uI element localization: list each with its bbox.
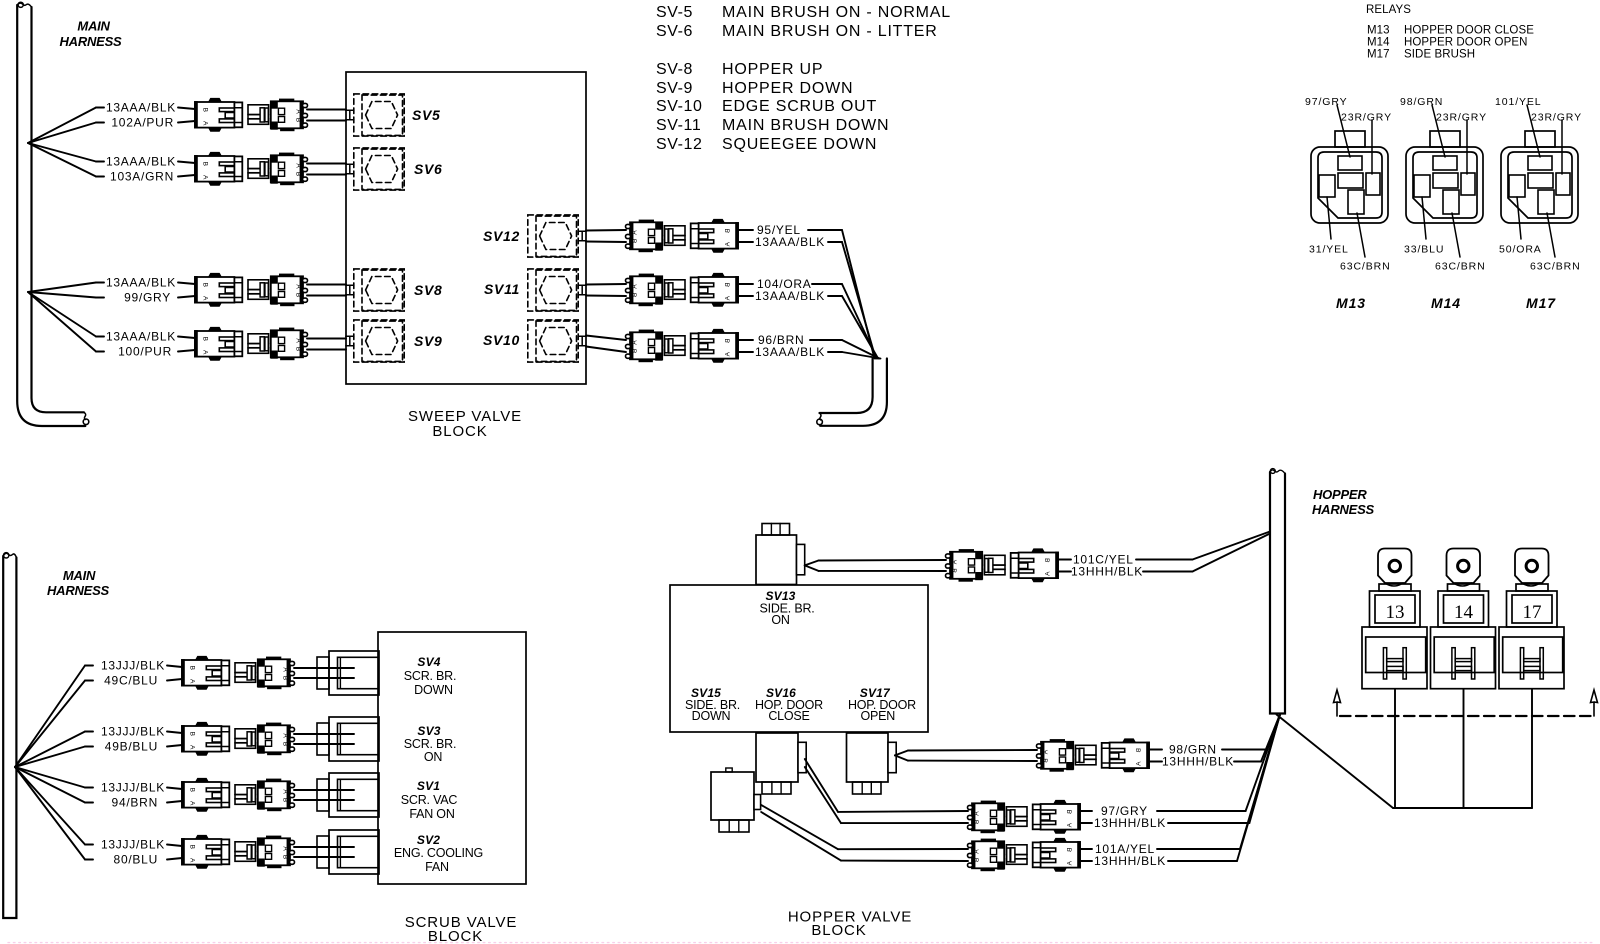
svg-text:98/GRN: 98/GRN (1400, 96, 1443, 108)
wires to hopper harness fan (1157, 848, 1240, 850)
svg-text:B: B (282, 742, 289, 746)
wires to hopper harness (1136, 559, 1193, 561)
svg-text:B: B (201, 283, 208, 287)
svg-text:M17: M17 (1367, 49, 1390, 61)
svg-text:A: A (295, 163, 302, 168)
svg-text:A: A (188, 858, 195, 863)
connector pair at y=115 (194, 98, 307, 131)
svg-text:A: A (1067, 861, 1074, 866)
svg-text:SV5: SV5 (412, 107, 441, 123)
svg-text:SV12: SV12 (483, 228, 520, 244)
relay bundle horizontal wire (1393, 807, 1532, 809)
wires to connector (167, 845, 182, 847)
relay socket M14 (1406, 105, 1483, 257)
svg-text:99/GRY: 99/GRY (124, 291, 171, 305)
svg-text:A: A (282, 733, 289, 738)
svg-text:A: A (1136, 762, 1143, 767)
svg-text:A: A (201, 121, 208, 126)
svg-text:A: A (188, 745, 195, 750)
small bump on SV15 (726, 768, 732, 772)
wires to connector (167, 666, 182, 668)
svg-text:13HHH/BLK: 13HHH/BLK (1094, 816, 1166, 830)
wires from SV15 to connector 101A/YEL (761, 805, 838, 849)
svg-text:23R/GRY: 23R/GRY (1341, 112, 1392, 124)
svg-text:HARNESS: HARNESS (1312, 502, 1375, 517)
svg-text:13HHH/BLK: 13HHH/BLK (1094, 854, 1166, 868)
wire stubs to labels (1058, 559, 1071, 561)
svg-text:ON: ON (771, 613, 790, 627)
connector pair 101C/YEL (946, 549, 1059, 582)
svg-text:B: B (725, 339, 732, 343)
wires from labels to sweep harness stub (808, 229, 842, 231)
svg-text:BLOCK: BLOCK (432, 423, 487, 440)
svg-text:RELAYS: RELAYS (1366, 4, 1411, 16)
svg-text:MAIN BRUSH ON - LITTER: MAIN BRUSH ON - LITTER (722, 23, 938, 40)
svg-text:MAIN BRUSH ON - NORMAL: MAIN BRUSH ON - NORMAL (722, 4, 951, 21)
svg-text:13AAA/BLK: 13AAA/BLK (106, 101, 176, 115)
svg-text:SV4: SV4 (417, 655, 440, 669)
solenoid SV16 (756, 733, 798, 782)
solenoid SV13 (756, 535, 797, 585)
wires sweep block to connector (586, 229, 626, 232)
svg-text:103A/GRN: 103A/GRN (110, 170, 174, 184)
svg-text:A: A (725, 242, 732, 247)
svg-text:SV6: SV6 (414, 161, 443, 177)
relay wires down (1394, 689, 1396, 808)
svg-text:A: A (632, 340, 639, 345)
svg-text:CLOSE: CLOSE (768, 709, 809, 723)
svg-text:SV3: SV3 (417, 724, 440, 738)
wire fan from main harness at (15,767) (15, 666, 85, 768)
wires connector to solenoid (294, 667, 354, 669)
svg-text:B: B (974, 858, 981, 862)
svg-text:23R/GRY: 23R/GRY (1436, 112, 1487, 124)
svg-text:B: B (282, 798, 289, 802)
svg-text:B: B (188, 845, 195, 849)
svg-text:SV-9: SV-9 (656, 80, 693, 97)
wires connector to sweep valve block (307, 163, 346, 165)
wires to connector (167, 732, 182, 734)
connector pair at y=795 (181, 778, 294, 811)
svg-text:SV-10: SV-10 (656, 98, 703, 115)
svg-text:13AAA/BLK: 13AAA/BLK (106, 155, 176, 169)
svg-text:M13: M13 (1367, 25, 1390, 37)
svg-text:B: B (1067, 810, 1074, 814)
connector pair 101A/YEL (968, 838, 1081, 871)
valve SV10 (528, 320, 586, 362)
svg-text:13HHH/BLK: 13HHH/BLK (1071, 565, 1143, 579)
connector pair at y=739 (181, 722, 294, 755)
wires from SV16 to connector 97/GRY (805, 759, 838, 812)
svg-text:B: B (632, 349, 639, 353)
wires connector to sweep valve block (307, 109, 346, 111)
svg-text:B: B (201, 108, 208, 112)
svg-text:B: B (632, 239, 639, 243)
wire stubs to labels (738, 339, 753, 341)
wire to connector (178, 108, 195, 110)
svg-text:SV-6: SV-6 (656, 23, 693, 40)
hopper valve block (670, 585, 928, 732)
svg-text:SCR. BR.: SCR. BR. (404, 737, 457, 751)
svg-text:SCR. BR.: SCR. BR. (404, 669, 457, 683)
svg-text:13AAA/BLK: 13AAA/BLK (755, 235, 825, 249)
main harness (bottom-left) bar (3, 556, 16, 918)
connector pair at y=673 (181, 656, 294, 689)
svg-text:B: B (282, 676, 289, 680)
valve SV6 (346, 148, 404, 190)
relay 13 (1362, 549, 1427, 689)
connector pair (right) at y=290 (626, 273, 739, 306)
svg-text:A: A (201, 296, 208, 301)
svg-text:49C/BLU: 49C/BLU (104, 674, 158, 688)
valve SV11 (528, 269, 586, 311)
svg-text:101/YEL: 101/YEL (1495, 96, 1542, 108)
svg-text:OPEN: OPEN (861, 709, 896, 723)
hopper harness bar (1270, 472, 1285, 714)
svg-text:B: B (188, 732, 195, 736)
main harness (top-left) top cap (17, 3, 31, 7)
wires connector to sweep valve block (307, 284, 346, 286)
svg-text:23R/GRY: 23R/GRY (1531, 112, 1582, 124)
wires connector to solenoid (294, 733, 354, 735)
wire to connector (178, 337, 195, 339)
wire to connector (178, 283, 195, 285)
wire stubs to labels (738, 229, 753, 231)
svg-text:100/PUR: 100/PUR (118, 345, 172, 359)
svg-text:B: B (725, 283, 732, 287)
wire stubs to labels (1080, 848, 1092, 850)
svg-text:B: B (1136, 748, 1143, 752)
svg-text:13JJJ/BLK: 13JJJ/BLK (101, 838, 165, 852)
svg-text:B: B (1067, 848, 1074, 852)
svg-text:A: A (295, 284, 302, 289)
connector pair at y=290 (194, 273, 307, 306)
svg-text:A: A (632, 230, 639, 235)
wire stubs to labels (738, 283, 753, 285)
svg-text:B: B (632, 293, 639, 297)
svg-text:50/ORA: 50/ORA (1499, 244, 1542, 256)
svg-text:DOWN: DOWN (414, 683, 453, 697)
wires connector to solenoid (294, 789, 354, 791)
hopper harness top cap (1270, 470, 1285, 474)
wires to hopper harness fan (1222, 749, 1266, 751)
connector pair (right) at y=236 (626, 219, 739, 252)
svg-text:EDGE SCRUB OUT: EDGE SCRUB OUT (722, 98, 877, 115)
svg-text:SV11: SV11 (484, 281, 520, 297)
connector pair 97/GRY (968, 800, 1081, 833)
svg-text:13JJJ/BLK: 13JJJ/BLK (101, 781, 165, 795)
svg-text:SV9: SV9 (414, 333, 443, 349)
svg-text:M13: M13 (1336, 295, 1366, 311)
svg-text:13JJJ/BLK: 13JJJ/BLK (101, 725, 165, 739)
wires to hopper harness fan (1157, 810, 1246, 812)
svg-text:HOPPER DOWN: HOPPER DOWN (722, 80, 853, 97)
scrub solenoid at y=852 (317, 836, 329, 868)
svg-text:MAIN: MAIN (63, 568, 96, 583)
svg-text:M14: M14 (1431, 295, 1461, 311)
relay 14 (1431, 549, 1496, 689)
wire fan from main harness at (28,292) (28, 283, 96, 293)
svg-text:M14: M14 (1367, 37, 1390, 49)
svg-text:13JJJ/BLK: 13JJJ/BLK (101, 659, 165, 673)
svg-text:A: A (974, 811, 981, 816)
svg-text:13: 13 (1386, 602, 1405, 623)
svg-text:B: B (201, 162, 208, 166)
main harness (bottom-left) top cap (3, 553, 16, 557)
svg-text:SV10: SV10 (483, 332, 520, 348)
wire to connector (178, 162, 195, 164)
svg-text:63C/BRN: 63C/BRN (1340, 261, 1391, 273)
wires sweep block to connector (586, 336, 626, 341)
svg-text:B: B (201, 337, 208, 341)
relay 17 (1499, 549, 1564, 689)
main harness (top-left) end cap (84, 412, 86, 419)
svg-text:A: A (188, 679, 195, 684)
svg-text:A: A (974, 849, 981, 854)
svg-text:17: 17 (1523, 602, 1542, 623)
svg-text:A: A (725, 296, 732, 301)
svg-text:MAIN: MAIN (77, 19, 110, 34)
svg-text:HARNESS: HARNESS (47, 583, 110, 598)
svg-text:B: B (282, 855, 289, 859)
svg-text:A: A (282, 846, 289, 851)
svg-text:A: A (1067, 823, 1074, 828)
svg-text:B: B (188, 788, 195, 792)
scrub solenoid at y=795 (317, 779, 329, 811)
svg-text:A: A (952, 560, 959, 565)
svg-text:SV-11: SV-11 (656, 117, 701, 134)
svg-text:A: A (1045, 572, 1052, 577)
scrub valve block (378, 632, 526, 884)
svg-text:SIDE BRUSH: SIDE BRUSH (1404, 49, 1475, 61)
scrub solenoid at y=739 (317, 723, 329, 755)
svg-text:DOWN: DOWN (692, 709, 731, 723)
wire fork from SV13 solenoid (805, 561, 819, 566)
svg-text:A: A (201, 175, 208, 180)
svg-text:A: A (725, 352, 732, 357)
svg-text:HOPPER: HOPPER (1313, 487, 1367, 502)
valve SV5 (346, 94, 404, 136)
svg-text:97/GRY: 97/GRY (1305, 96, 1348, 108)
main harness (top-left) outer line (17, 5, 85, 426)
svg-text:SV-12: SV-12 (656, 136, 703, 153)
svg-text:HARNESS: HARNESS (60, 34, 123, 49)
svg-text:SCR. VAC: SCR. VAC (401, 793, 458, 807)
scan artifact dotted line (8, 942, 1592, 944)
wires connector to solenoid (294, 846, 354, 848)
svg-text:B: B (952, 568, 959, 572)
svg-text:SV-5: SV-5 (656, 4, 693, 21)
svg-text:SQUEEGEE DOWN: SQUEEGEE DOWN (722, 136, 877, 153)
svg-text:FAN ON: FAN ON (409, 807, 454, 821)
svg-text:31/YEL: 31/YEL (1309, 244, 1349, 256)
connector pair at y=852 (181, 835, 294, 868)
svg-text:B: B (1045, 558, 1052, 562)
svg-text:13AAA/BLK: 13AAA/BLK (755, 289, 825, 303)
wire fan from main harness at (28,143) (28, 108, 96, 144)
svg-text:SV-8: SV-8 (656, 61, 693, 78)
relay socket M13 (1311, 105, 1388, 257)
connector pair at y=169 (194, 152, 307, 185)
svg-text:HOPPER DOOR CLOSE: HOPPER DOOR CLOSE (1404, 25, 1534, 37)
svg-text:HOPPER UP: HOPPER UP (722, 61, 823, 78)
svg-text:SV1: SV1 (417, 779, 440, 793)
svg-text:A: A (295, 109, 302, 114)
wire fan from hopper harness bottom (1266, 715, 1280, 750)
svg-text:A: A (188, 801, 195, 806)
svg-text:FAN: FAN (425, 860, 449, 874)
svg-text:49B/BLU: 49B/BLU (105, 740, 158, 754)
svg-text:13AAA/BLK: 13AAA/BLK (106, 276, 176, 290)
svg-text:A: A (282, 789, 289, 794)
svg-text:B: B (295, 293, 302, 297)
svg-text:102A/PUR: 102A/PUR (111, 116, 174, 130)
svg-text:B: B (295, 118, 302, 122)
svg-text:A: A (632, 284, 639, 289)
svg-text:MAIN BRUSH DOWN: MAIN BRUSH DOWN (722, 117, 889, 134)
main harness (top-left) inner line (32, 7, 84, 412)
solenoid SV15 (711, 772, 754, 820)
svg-text:94/BRN: 94/BRN (112, 796, 158, 810)
svg-text:HOPPER DOOR OPEN: HOPPER DOOR OPEN (1404, 37, 1528, 49)
connector pair (right) at y=346 (626, 329, 739, 362)
wire from hopper harness to relay bundle (1277, 715, 1394, 809)
wire stubs to labels (1080, 810, 1092, 812)
scrub solenoid at y=673 (317, 657, 329, 689)
connector pair 98/GRN (1037, 739, 1150, 772)
svg-text:B: B (725, 229, 732, 233)
svg-text:13AAA/BLK: 13AAA/BLK (106, 330, 176, 344)
svg-text:A: A (282, 667, 289, 672)
svg-text:BLOCK: BLOCK (428, 928, 483, 944)
relay socket M17 (1501, 105, 1578, 257)
svg-text:B: B (974, 820, 981, 824)
arrow left (1334, 690, 1341, 716)
wires sweep block to connector (586, 283, 626, 286)
connector pair at y=344 (194, 327, 307, 360)
solenoid SV17 (847, 733, 889, 782)
sweep harness stub (curved tube) (820, 359, 873, 414)
wires to connector (167, 788, 182, 790)
wires connector to sweep valve block (307, 338, 346, 340)
svg-text:80/BLU: 80/BLU (114, 853, 158, 867)
svg-text:A: A (295, 338, 302, 343)
svg-text:13HHH/BLK: 13HHH/BLK (1162, 755, 1234, 769)
sweep harness stub end cap (820, 413, 821, 420)
svg-text:SV8: SV8 (414, 282, 443, 298)
svg-text:33/BLU: 33/BLU (1404, 244, 1444, 256)
svg-text:A: A (201, 350, 208, 355)
wire fork from SV17 solenoid (895, 751, 908, 756)
svg-text:63C/BRN: 63C/BRN (1435, 261, 1486, 273)
svg-text:14: 14 (1454, 602, 1474, 623)
svg-text:ON: ON (424, 750, 443, 764)
svg-text:13AAA/BLK: 13AAA/BLK (755, 345, 825, 359)
svg-text:A: A (1043, 750, 1050, 755)
svg-text:ENG. COOLING: ENG. COOLING (394, 846, 483, 860)
svg-text:B: B (295, 347, 302, 351)
svg-text:63C/BRN: 63C/BRN (1530, 261, 1581, 273)
svg-text:B: B (188, 666, 195, 670)
svg-text:BLOCK: BLOCK (811, 922, 866, 939)
svg-text:SV2: SV2 (417, 833, 440, 847)
valve SV12 (528, 215, 586, 257)
svg-text:M17: M17 (1526, 295, 1556, 311)
svg-text:B: B (1043, 758, 1050, 762)
valve SV9 (346, 320, 404, 362)
svg-text:B: B (295, 172, 302, 176)
sweep valve block (346, 72, 586, 384)
wire stubs to labels (1149, 749, 1162, 751)
dashed link line (1340, 715, 1592, 717)
valve SV8 (346, 269, 404, 311)
arrow right (1591, 690, 1598, 716)
